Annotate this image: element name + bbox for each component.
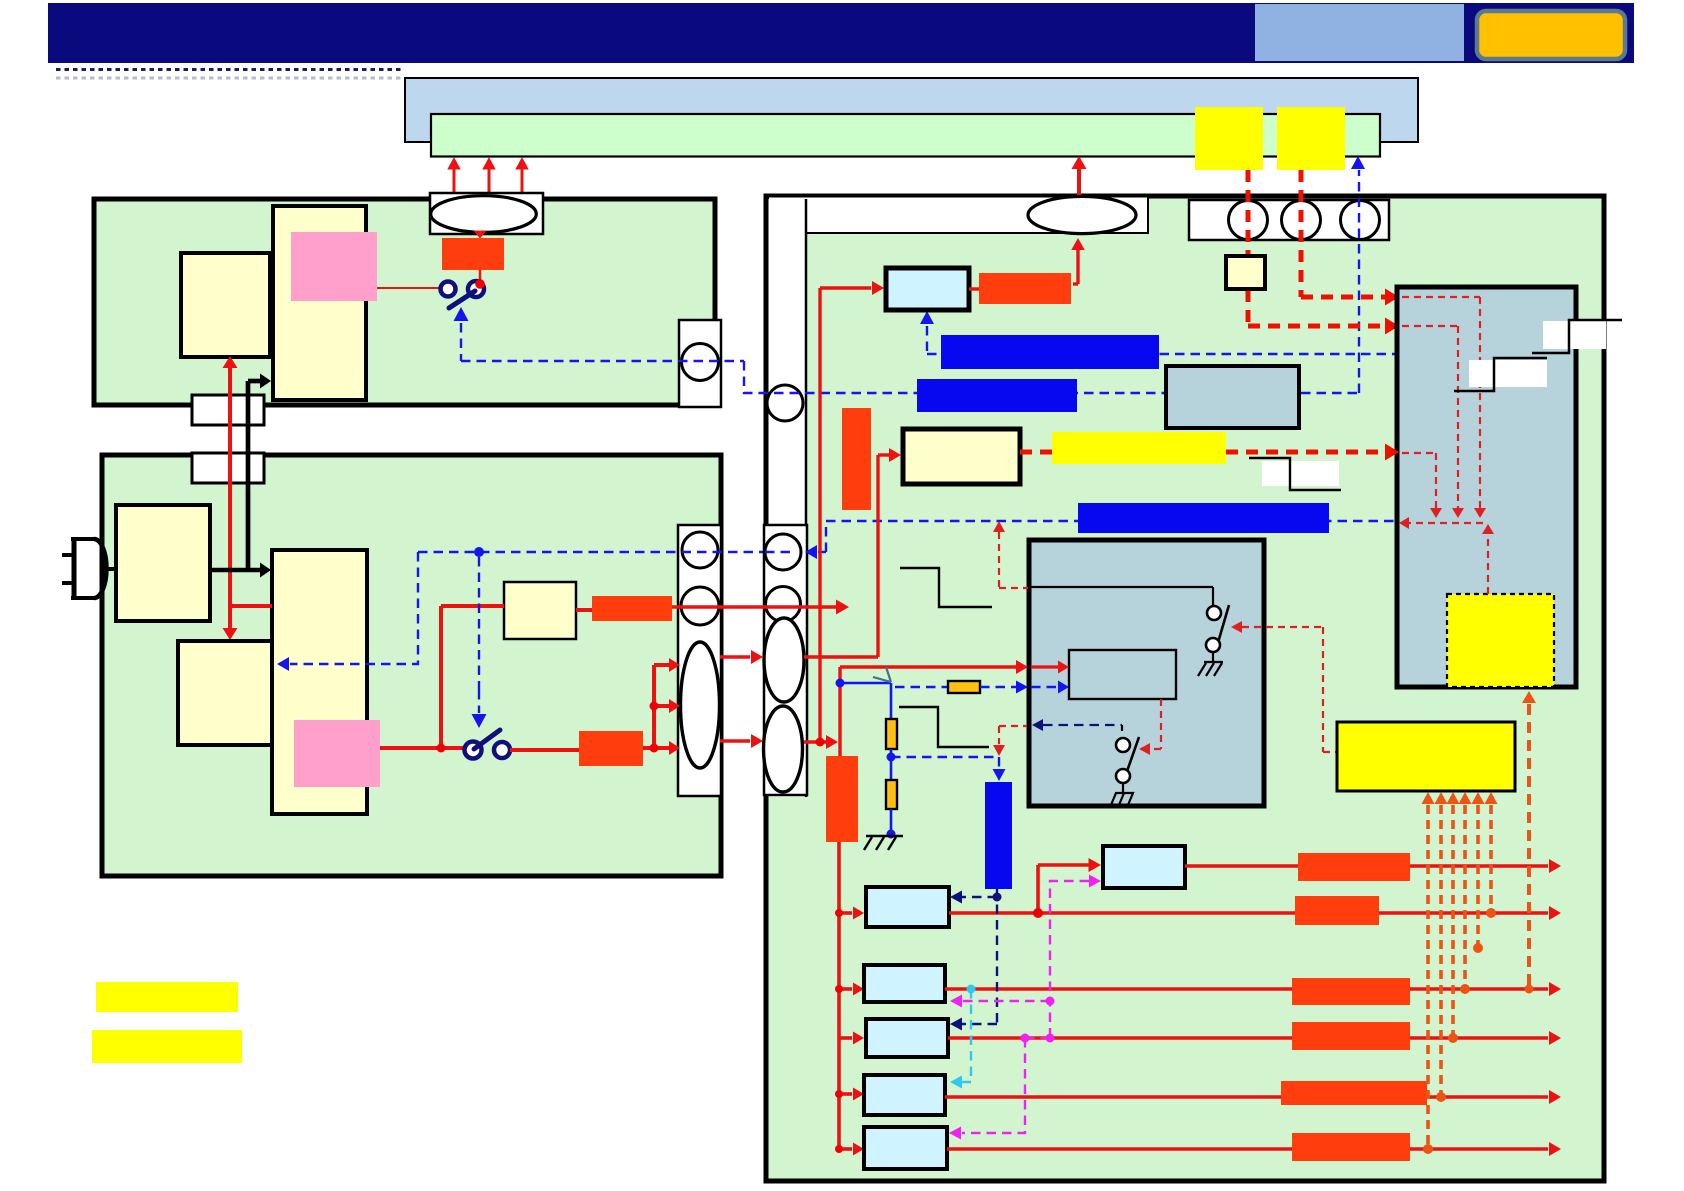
blue tap node on red wire [836, 679, 845, 688]
panel2 cream block B [178, 641, 275, 745]
red bus arrow to box 3 [839, 1036, 852, 1040]
blue ground node [887, 830, 896, 839]
red riser x820 [818, 288, 821, 742]
blue dashed arrow into relay inner block [1031, 686, 1058, 688]
blue signal bar 1 [941, 335, 1159, 369]
switch S1 lever [449, 291, 475, 308]
step callout 3 line [1249, 458, 1341, 490]
red-orange bar mid-left [842, 408, 871, 510]
panel1 side connector shell [679, 320, 721, 407]
red wire box1 out [1379, 911, 1548, 915]
panel2 pink block [294, 720, 380, 787]
yellow command bar [1337, 722, 1515, 791]
orange dashed line to program block [1522, 691, 1536, 703]
panel3 small steel block [1166, 366, 1299, 428]
legend yellow box 2 [92, 1030, 242, 1063]
panel1 top connector shell [430, 193, 543, 234]
red wire box4 out [1427, 1095, 1548, 1099]
blue dashed bus y520 [826, 521, 1397, 552]
orange dashed sense line 4 [1459, 792, 1472, 804]
switch S2 contact left [465, 742, 482, 759]
blue dashed arrow up to bus [1358, 170, 1360, 393]
panel2 red-orange bar 2 [579, 731, 643, 766]
panel1 cream block B (tall) [273, 206, 366, 400]
red-orange load bar E [1281, 1081, 1427, 1105]
panel3 connector circle 1 [765, 534, 801, 570]
divider wiper levers [886, 667, 891, 682]
red wire ellipse2 out [804, 740, 826, 743]
red arrow from connector into heater block [474, 231, 487, 239]
red stub to switch node [479, 270, 482, 282]
yellow module 2 on bus [1277, 107, 1345, 170]
panel3 connector ellipse 2 [764, 706, 803, 792]
panel3 band ellipse [1028, 196, 1136, 233]
blue signal bar 3 [1078, 503, 1329, 533]
blue dashed control wire panel1 [461, 360, 744, 362]
panel1 pink block [291, 232, 377, 301]
red riser to block D [439, 606, 443, 748]
blue sense wire [840, 682, 891, 685]
panel1 side connector circle [682, 344, 719, 381]
cyan output box 4 [864, 1075, 945, 1115]
black wire A to C [210, 568, 261, 573]
red arrow into relay inner block [1031, 665, 1058, 668]
cyan output box 2 [864, 965, 945, 1002]
red dashed tap to K1 feed [993, 521, 1005, 532]
orange dashed sense line 1 [1422, 792, 1435, 804]
relay switch K1 ground [1212, 652, 1214, 661]
step callout 1 white [1543, 321, 1606, 349]
red dashed from K2 exit [999, 725, 1027, 727]
panel3 white top band [768, 197, 1148, 234]
bus bar green [431, 114, 1380, 157]
thick red dashed yellow to steel box [1226, 450, 1388, 455]
blue dashed arrow into connector [818, 551, 826, 553]
red fan-out riser [652, 665, 656, 748]
panel3 side connector shell [764, 525, 807, 795]
red fan-out arrow 3 [654, 746, 670, 750]
step glyph 2 [899, 707, 989, 747]
blue dashed wire to blue bar [891, 756, 999, 758]
legend yellow box 1 [96, 982, 238, 1012]
red wire ellipse1 to riser [804, 655, 878, 658]
red wire pink block to switch [377, 287, 441, 289]
red dashed control to K2 [1160, 699, 1162, 749]
blue control arrow at S2 [472, 714, 487, 728]
step callout 2 white [1469, 360, 1547, 387]
thin red dashed drop 3 [1402, 452, 1436, 454]
navy dashed net [996, 889, 998, 1024]
divider ground symbol [866, 835, 903, 837]
resistor R1 [886, 719, 897, 749]
resistor R3 [948, 681, 980, 693]
panel3 top connector circle 3 [1341, 201, 1380, 240]
bus bar light blue [405, 78, 1418, 142]
orange dashed sense line 2 [1435, 792, 1448, 804]
panel3 white connector strip [769, 199, 807, 797]
red wire switch to bar2 [510, 748, 579, 752]
relay switch K2 feed [1032, 719, 1043, 731]
red wire to relay box [838, 667, 841, 756]
red wire box3 [948, 1036, 1292, 1040]
red wire D to bar1 [576, 608, 592, 612]
red node fan-out mid [650, 702, 659, 711]
yellow dashed program block [1447, 594, 1554, 687]
switch S1 contact left [441, 282, 456, 297]
header title bar [48, 3, 1634, 63]
header bottom dashed edge gray [56, 77, 402, 80]
panel3 top connector shell [1189, 200, 1389, 240]
red wire box1 [949, 911, 1295, 915]
panel1 top connector ellipse [431, 196, 537, 233]
switch S2 contact right [494, 742, 510, 758]
panel2 connector circle 1 [682, 532, 718, 568]
blue dashed wire to relay 2 [980, 686, 1016, 688]
panel3 cyan AD box [886, 268, 969, 310]
step callout 3 white [1262, 461, 1339, 486]
thick red dashed from yellow module 2 [1299, 170, 1304, 297]
blue dashed bus in panel2 [418, 551, 800, 553]
orange dashed sense line 5 [1472, 792, 1485, 804]
red bus arrow to box 5 [839, 1147, 852, 1151]
header bottom dashed edge navy [56, 68, 402, 71]
red node fan-out low [650, 744, 659, 753]
relay steel box [1029, 540, 1264, 806]
resistor R2 [886, 780, 897, 809]
panel3 small cream block [1226, 256, 1265, 289]
panel3 enclosure [766, 196, 1604, 1181]
red wire box5 out [1410, 1147, 1548, 1151]
blue dashed net to AD block [926, 326, 928, 354]
panel3 connector ellipse 1 [764, 618, 804, 702]
red wire box0 out [1410, 864, 1548, 868]
orange dashed sense line 3 [1447, 792, 1460, 804]
red wire bar2 to fan-out [643, 746, 654, 750]
step glyph 1 [900, 568, 992, 607]
relay switch K2 contact bottom [1116, 769, 1130, 783]
red wire to cream AD block [878, 453, 890, 456]
steel control box [1397, 287, 1576, 687]
red bus node [835, 985, 843, 993]
red-orange load bar F [1292, 1133, 1410, 1161]
thin red dashed drop 2 [1402, 325, 1458, 327]
red-orange load bar D [1292, 1022, 1410, 1050]
red wire box5 [947, 1147, 1292, 1151]
blue dashed bus through connector [765, 551, 790, 553]
orange dashed sense line 6 [1485, 792, 1498, 804]
red wire box2 out [1410, 987, 1548, 991]
blue link R2-ground [890, 809, 893, 835]
panel1 enclosure [94, 199, 715, 405]
panel3 top connector circle 2 [1282, 201, 1321, 240]
red wire box0 [1185, 864, 1298, 868]
switch S1 contact right [468, 281, 484, 297]
header orange rounded button [1477, 11, 1625, 59]
blue dashed wire to relay [895, 686, 948, 688]
relay switch K1 feed [1031, 586, 1213, 588]
blue dashed branch to block B [290, 552, 418, 664]
red fan-out arrow 1 [654, 663, 670, 667]
red bus node [835, 1090, 843, 1098]
panel3 connector circle 2 [766, 587, 801, 622]
panel3 yellow bar [1052, 432, 1226, 464]
thick red dashed cream to yellow [1020, 450, 1052, 455]
cyan output box 5 [864, 1127, 947, 1169]
red bus arrow to box 4 [839, 1092, 852, 1096]
red bus arrow to box 1 [839, 911, 852, 915]
panel3 red-orange bar top [979, 273, 1071, 304]
step callout 1 line [1532, 320, 1622, 353]
red arrow band ellipse to bus [1077, 169, 1081, 195]
cyan output box 0 [1103, 846, 1185, 888]
panel2 cream block C (tall) [272, 550, 367, 814]
red bus node [835, 909, 843, 917]
thick red dashed from yellow module 1 [1246, 170, 1251, 326]
red dashed control to K1 [1231, 621, 1242, 633]
cyan dashed net [967, 985, 976, 994]
red wire box4 [945, 1095, 1281, 1099]
relay switch K1 contact top [1207, 606, 1221, 620]
red arrow up to bus 1 [453, 169, 456, 194]
thin red dashed bus [1404, 522, 1488, 524]
AC plug symbol [72, 537, 77, 600]
panel3 cream AD block [903, 429, 1020, 484]
panel1 red-orange block [442, 238, 504, 270]
blue node on dashed bus [474, 547, 484, 557]
red arrow up to bus 2 [488, 169, 491, 194]
panel2 enclosure [102, 455, 721, 876]
panel1 cream block A [181, 253, 270, 357]
relay switch K1 contact bottom [1206, 638, 1220, 652]
red wire box3 out [1410, 1036, 1548, 1040]
red-orange load bar C [1292, 978, 1410, 1005]
relay switch K2 contact top [1116, 738, 1130, 752]
red node on box1 wire [1033, 908, 1043, 918]
red node at switch [475, 279, 485, 289]
red arrow from connector circle2 [672, 605, 836, 608]
cyan output box 1 [866, 887, 949, 927]
red node on ellipse2 wire [816, 738, 825, 747]
panel3 top connector circle 1 [1229, 201, 1268, 240]
red node before switch S2 [437, 744, 446, 753]
red link line panels 1-2 [228, 367, 232, 629]
red wire pink to switch node [380, 746, 464, 750]
panel2 side connector shell [678, 525, 721, 796]
panel1 feed-through box [192, 395, 264, 425]
red fan-out arrow 2 [654, 704, 670, 708]
magenta dashed net [1050, 881, 1089, 1036]
red-orange supply bar tall [826, 756, 858, 842]
red-orange load bar A [1298, 853, 1410, 881]
red arrow up to bus 3 [521, 169, 524, 194]
red arrow bar to band ellipse [1073, 282, 1078, 285]
relay switch K2 ground [1122, 783, 1124, 792]
panel2 connector circle 2 [681, 587, 719, 625]
switch S2 lever [474, 730, 500, 749]
yellow module 1 on bus [1195, 107, 1263, 170]
red riser x878 [876, 455, 879, 657]
panel2 cream block A (input) [116, 505, 210, 621]
blue control arrow at S1 [454, 307, 469, 321]
relay switch K1 lever [1217, 605, 1229, 646]
red dashed arrow program block to bus [1487, 534, 1489, 594]
red wire ellipse2 cross-gap [720, 739, 750, 742]
red supply bus riser [837, 842, 841, 1149]
red wire ellipse1 cross-gap [720, 655, 750, 658]
red bus node [835, 1145, 843, 1153]
red riser to box0 [1036, 865, 1040, 913]
red branch into block C [230, 604, 272, 608]
cyan output box 3 [866, 1019, 948, 1057]
blue vertical bar [985, 782, 1012, 889]
panel2 cream block D [504, 582, 576, 639]
thin red dashed drop 1 [1402, 296, 1480, 298]
blue signal bar 2 [917, 379, 1077, 412]
blue link R1-R2 [890, 749, 893, 780]
panel2 connector ellipse [681, 642, 720, 768]
black link line panels 1-2 [246, 381, 251, 570]
blue dashed control wire to bus [744, 361, 1359, 393]
panel2 feed-through box [192, 453, 264, 483]
step callout 2 line [1454, 358, 1547, 391]
red-orange load bar B [1295, 896, 1379, 925]
blue divider node [887, 753, 896, 762]
header periwinkle box [1255, 4, 1464, 61]
red wire box2 [945, 987, 1292, 991]
relay switch K2 lever [1125, 737, 1139, 777]
red bus arrow to box 2 [839, 987, 852, 991]
panel3 strip circle [767, 385, 803, 421]
panel2 red-orange bar 1 [592, 596, 672, 621]
red wire into cyan AD box [820, 286, 871, 289]
relay inner block [1069, 650, 1176, 699]
